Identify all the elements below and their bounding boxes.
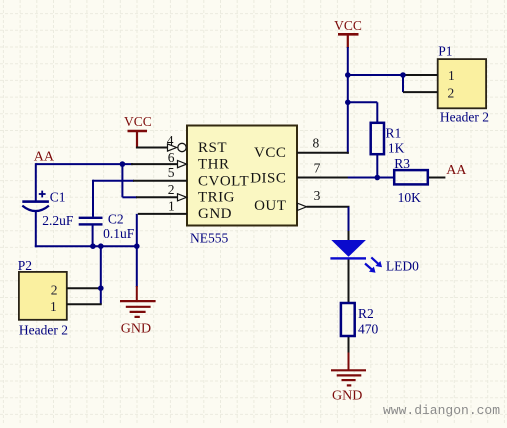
svg-text:Header 2: Header 2 (19, 323, 68, 338)
svg-text:GND: GND (121, 322, 151, 337)
svg-text:0.1uF: 0.1uF (103, 226, 135, 241)
svg-text:LED0: LED0 (386, 259, 419, 274)
svg-text:5: 5 (168, 165, 175, 180)
svg-text:GND: GND (332, 389, 362, 404)
svg-text:6: 6 (168, 150, 175, 165)
svg-text:AA: AA (34, 150, 55, 165)
svg-text:DISC: DISC (250, 171, 286, 187)
svg-text:2: 2 (448, 85, 455, 100)
svg-text:P1: P1 (438, 44, 452, 59)
svg-text:1K: 1K (388, 141, 405, 156)
svg-text:3: 3 (314, 188, 321, 203)
svg-text:THR: THR (198, 156, 230, 172)
svg-text:1: 1 (168, 199, 175, 214)
svg-text:Header 2: Header 2 (440, 110, 489, 125)
svg-text:2: 2 (168, 182, 175, 197)
svg-text:VCC: VCC (334, 18, 362, 33)
svg-text:RST: RST (198, 140, 227, 156)
svg-text:2: 2 (51, 283, 58, 298)
svg-text:AA: AA (446, 163, 467, 178)
svg-text:470: 470 (358, 322, 379, 337)
svg-text:4: 4 (167, 133, 174, 148)
svg-text:1: 1 (50, 299, 57, 314)
svg-text:VCC: VCC (254, 145, 286, 161)
svg-text:R2: R2 (358, 306, 374, 321)
svg-text:CVOLT: CVOLT (198, 173, 249, 189)
svg-text:R3: R3 (394, 156, 410, 171)
svg-text:GND: GND (198, 206, 232, 222)
svg-text:www.diangon.com: www.diangon.com (383, 403, 500, 418)
svg-text:R1: R1 (386, 126, 402, 141)
svg-text:NE555: NE555 (190, 231, 228, 246)
svg-text:10K: 10K (398, 190, 422, 205)
svg-text:P2: P2 (18, 258, 32, 273)
svg-text:C1: C1 (50, 190, 66, 205)
svg-text:1: 1 (448, 68, 455, 83)
svg-text:C2: C2 (108, 212, 124, 227)
svg-text:VCC: VCC (124, 114, 152, 129)
svg-text:7: 7 (314, 161, 321, 176)
svg-text:2.2uF: 2.2uF (42, 213, 74, 228)
svg-text:TRIG: TRIG (198, 190, 235, 206)
svg-text:8: 8 (313, 136, 320, 151)
svg-text:OUT: OUT (254, 198, 286, 214)
